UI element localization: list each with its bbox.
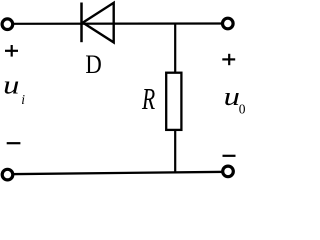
polarity - (right) (223, 155, 236, 157)
wire: vertical branch to R (174, 24, 176, 173)
svg-text:i: i (21, 92, 25, 107)
resistor R (166, 73, 181, 130)
svg-text:u: u (3, 71, 19, 100)
svg-text:D: D (85, 50, 101, 79)
svg-text:R: R (141, 82, 155, 116)
label u_0 (output voltage) (224, 82, 246, 116)
terminal: input - (bottom-left) (2, 169, 13, 180)
terminal: output - (bottom-right) (223, 166, 234, 177)
polarity + (right) (222, 54, 235, 65)
svg-text:u: u (224, 82, 240, 111)
polarity - (left) (7, 142, 21, 144)
terminal: output + (top-right) (223, 18, 234, 29)
diode D (82, 3, 114, 43)
wire: bottom rail (7, 172, 228, 174)
wire: top rail (7, 22, 228, 24)
svg-text:0: 0 (239, 101, 246, 116)
terminal: input + (top-left) (2, 19, 13, 30)
polarity + (left) (5, 45, 18, 57)
label u_i (input voltage) (3, 71, 25, 108)
